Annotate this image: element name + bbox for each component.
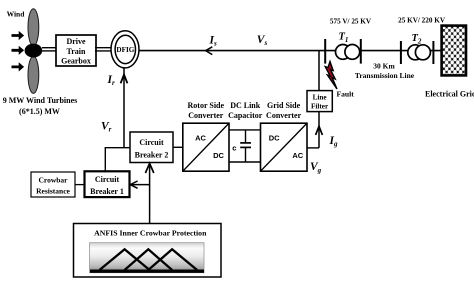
svg-text:Grid Side: Grid Side (267, 101, 301, 110)
svg-text:Rotor Side: Rotor Side (188, 101, 225, 110)
dc link bottom wire (229, 161, 261, 163)
fault lightning bolt (325, 62, 337, 90)
svg-text:Converter: Converter (188, 111, 224, 120)
svg-text:9 MW Wind Turbines: 9 MW Wind Turbines (3, 96, 77, 105)
svg-text:Gearbox: Gearbox (61, 57, 91, 66)
rotor side converter U1 (183, 123, 229, 171)
svg-text:Drive: Drive (66, 37, 86, 46)
svg-text:DC Link: DC Link (230, 101, 261, 110)
electrical grid block (442, 26, 466, 76)
svg-text:Circuit: Circuit (95, 175, 120, 184)
arrow Is on stator wire (206, 47, 213, 55)
svg-text:DC: DC (213, 151, 224, 160)
wind arrow 1 (12, 31, 25, 40)
wind turbine blade lower (28, 56, 39, 93)
circuit breaker 1 (85, 171, 130, 197)
svg-text:DFIG: DFIG (116, 46, 134, 54)
control wire ANFIS to breaker2 (149, 164, 151, 224)
crowbar resistance (31, 172, 75, 197)
wire junction to breaker 2 (105, 147, 131, 149)
svg-text:575 V/ 25 KV: 575 V/ 25 KV (330, 17, 372, 25)
svg-text:Filter: Filter (311, 103, 329, 111)
membership function panel (90, 243, 205, 273)
svg-text:25 KV/ 220 KV: 25 KV/ 220 KV (398, 16, 446, 24)
arrow left into breaker1 (130, 181, 137, 188)
control wire branch to breaker1 (132, 184, 150, 186)
bus bar left of T1 (324, 39, 326, 64)
bus bar left of T2 (400, 41, 402, 64)
membership axis (90, 270, 204, 273)
line filter (307, 91, 332, 112)
svg-text:Crowbar: Crowbar (38, 176, 68, 185)
svg-text:Electrical Grid: Electrical Grid (425, 89, 474, 98)
svg-text:(6*1.5) MW: (6*1.5) MW (19, 107, 60, 116)
bus bar right of T1 (360, 39, 362, 64)
membership triangle 3 (148, 249, 197, 270)
svg-text:Transmission Line: Transmission Line (355, 71, 415, 80)
membership triangle 1 (100, 249, 150, 270)
stator wire to grid (139, 50, 442, 52)
shaft turbine-to-gearbox (42, 47, 57, 49)
wire down to breaker 1 (104, 147, 106, 172)
bus bar right of T2 (432, 41, 434, 64)
shaft gearbox-to-DFIG (95, 47, 112, 49)
grid side converter U2 (261, 123, 308, 171)
svg-text:Resistance: Resistance (36, 187, 70, 196)
generator DFIG (111, 31, 139, 68)
ANFIS crowbar protection box (74, 224, 222, 278)
svg-text:Line: Line (313, 93, 327, 101)
svg-text:Circuit: Circuit (139, 138, 164, 147)
circuit breaker 2 (130, 132, 173, 163)
transformer T1 (336, 45, 351, 60)
svg-text:c: c (232, 144, 236, 153)
svg-text:Breaker 2: Breaker 2 (135, 151, 169, 160)
svg-text:ANFIS Inner Crowbar Protection: ANFIS Inner Crowbar Protection (94, 228, 207, 237)
drive train gearbox (56, 35, 96, 66)
capacitor C (245, 130, 247, 142)
svg-text:Converter: Converter (266, 111, 302, 120)
transformer T2 (408, 45, 423, 60)
arrow Ir up (121, 75, 128, 84)
wire GSC to line filter (307, 147, 319, 149)
wire fault tap down from stator line (318, 51, 320, 91)
arrow Ig up (316, 126, 323, 135)
svg-text:Capacitor: Capacitor (228, 111, 263, 120)
wind arrow 2 (12, 46, 25, 55)
svg-text:30 Km: 30 Km (373, 61, 395, 70)
membership triangle 2 (125, 249, 173, 270)
turbine hub (25, 44, 43, 58)
svg-text:AC: AC (292, 151, 303, 160)
svg-text:AC: AC (195, 133, 206, 142)
dc link top wire (229, 129, 261, 131)
svg-text:Fault: Fault (337, 89, 355, 98)
wind arrow 3 (12, 62, 25, 71)
wind turbine blade upper (28, 9, 39, 46)
svg-text:Wind: Wind (7, 10, 26, 19)
svg-text:DC: DC (269, 133, 280, 142)
svg-text:Breaker 1: Breaker 1 (90, 187, 124, 196)
svg-text:Train: Train (67, 47, 87, 56)
wire crowbar to breaker1 (75, 184, 85, 186)
wire breaker2 to RSC (173, 146, 184, 148)
arrow up into breaker2 (145, 163, 153, 173)
rotor wire DFIG down (123, 68, 125, 148)
